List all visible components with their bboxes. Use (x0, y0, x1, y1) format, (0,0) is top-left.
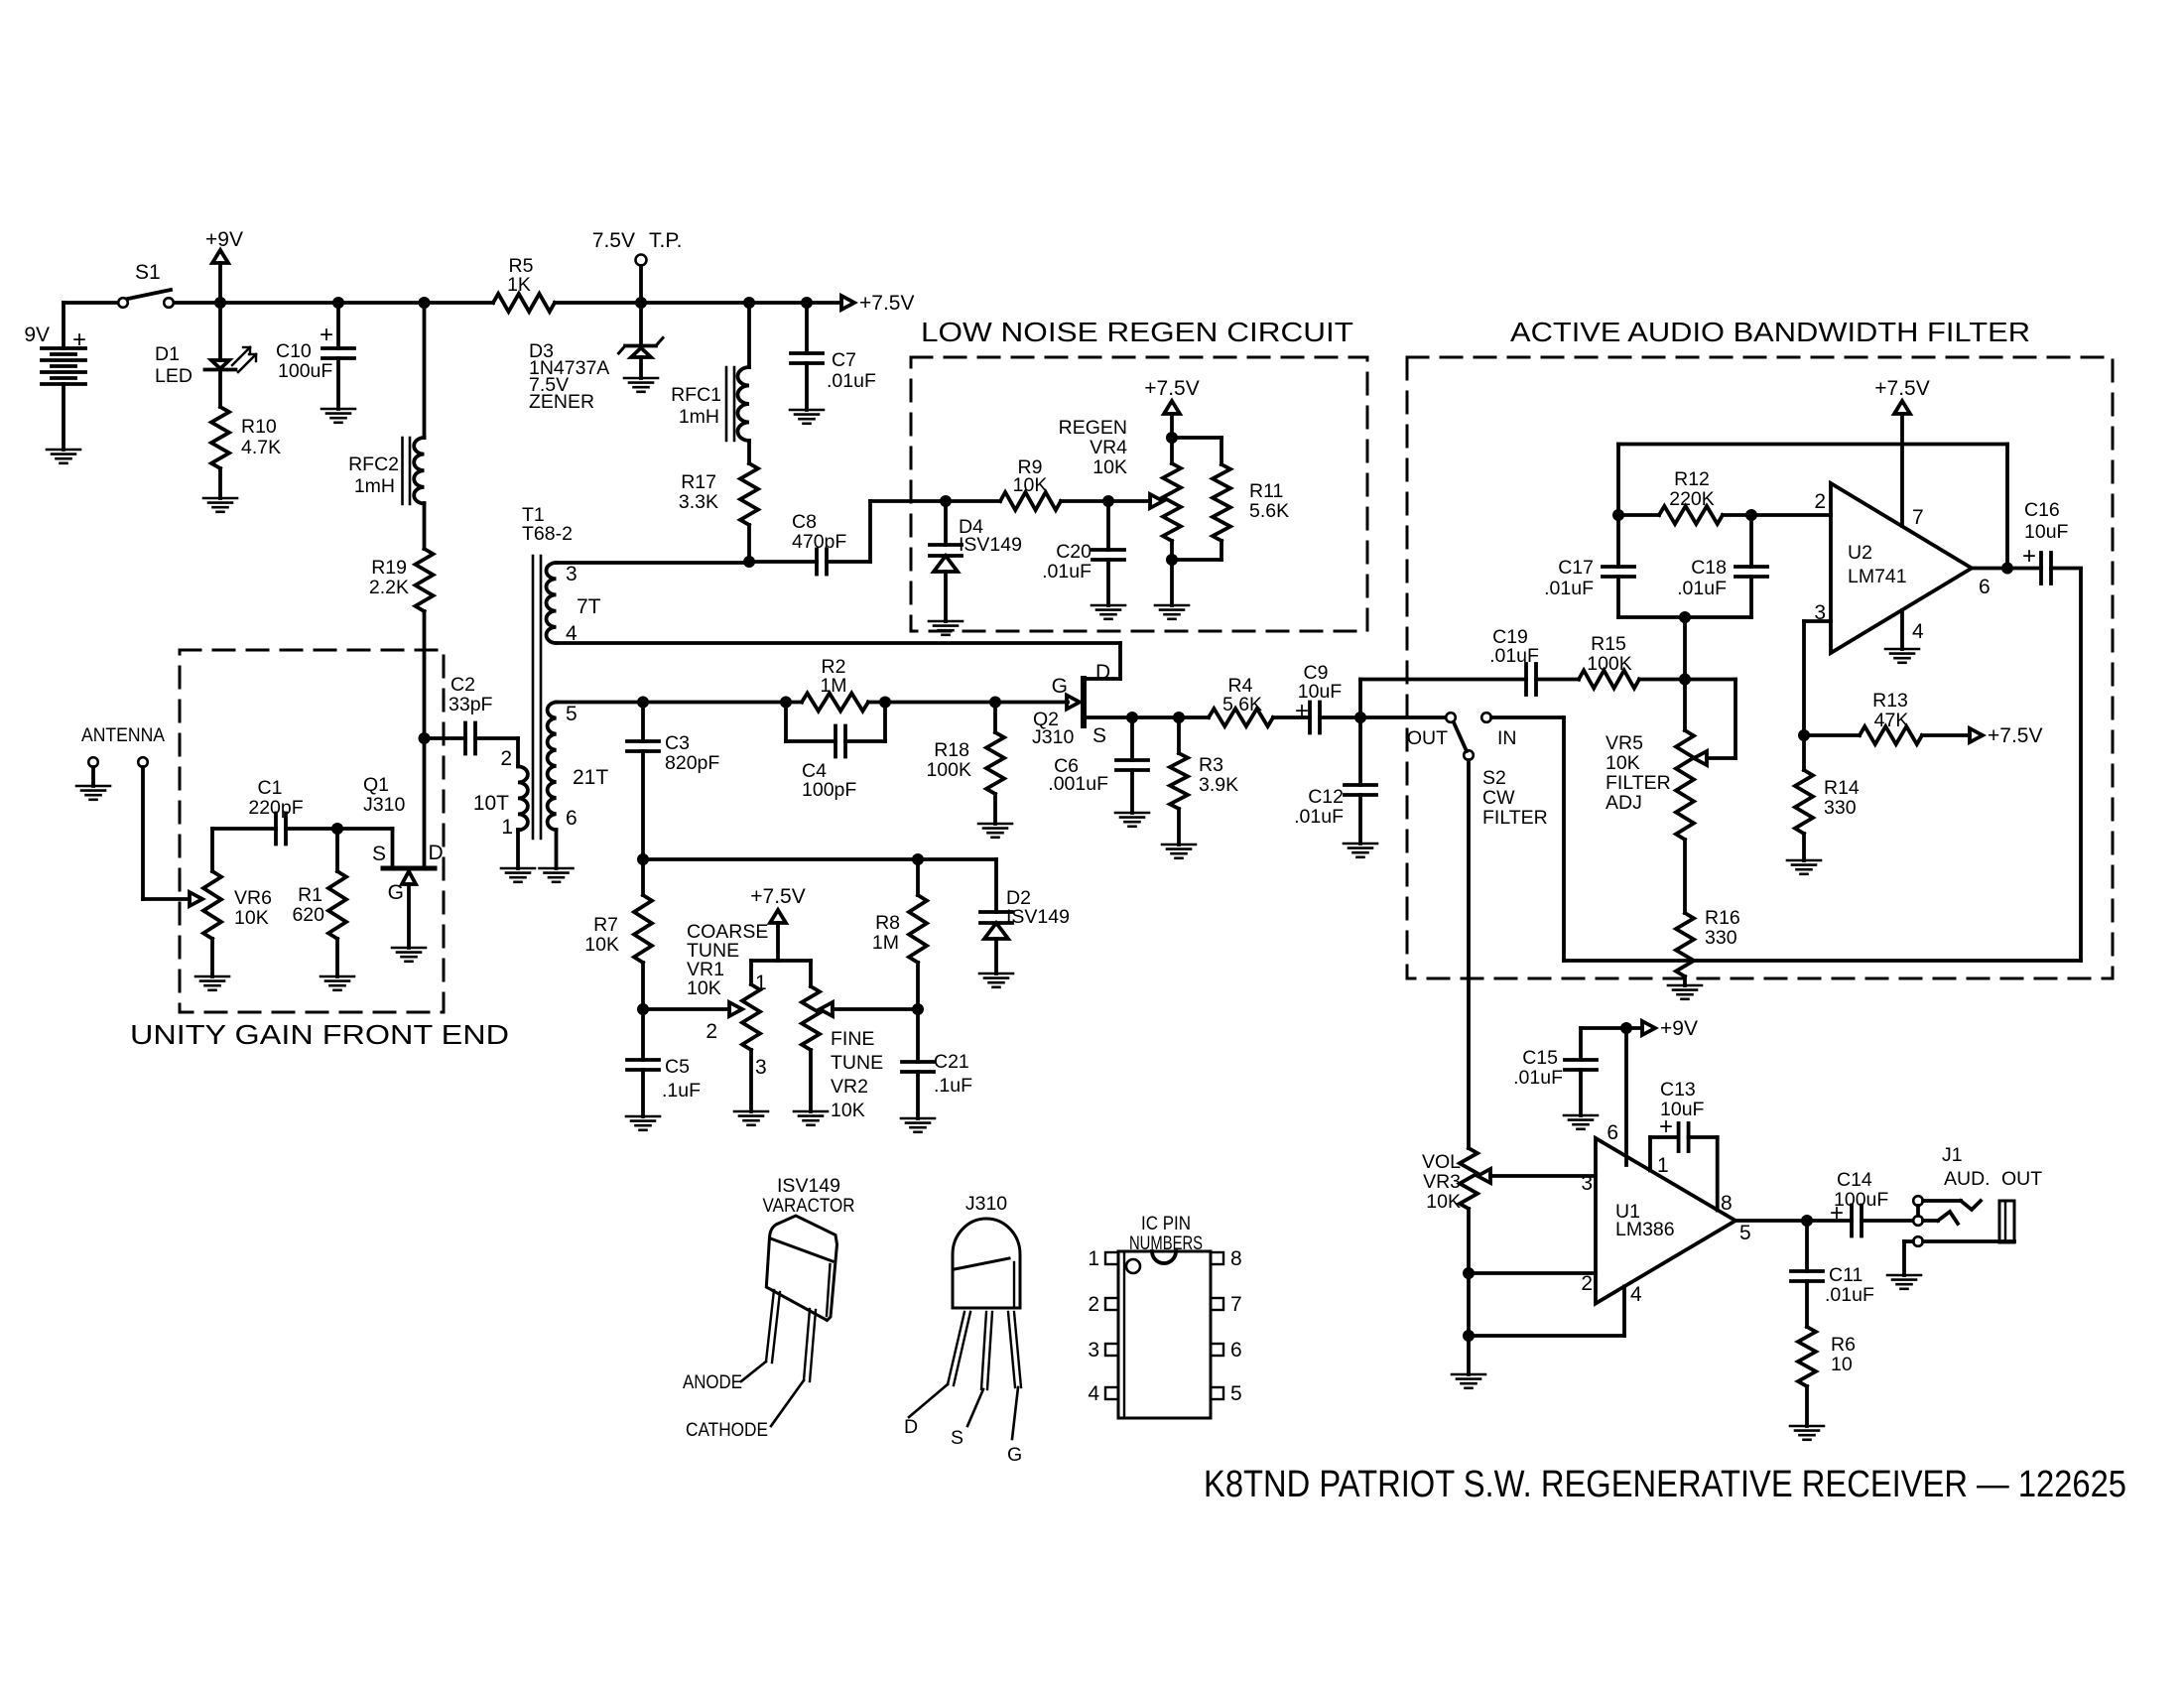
svg-text:C21: C21 (934, 1051, 969, 1073)
svg-text:R16: R16 (1705, 907, 1740, 929)
junction R8 top (912, 853, 924, 865)
svg-text:.01uF: .01uF (1544, 578, 1594, 599)
wire S2 common to VR3 (1467, 760, 1471, 1148)
svg-text:C15: C15 (1522, 1047, 1558, 1069)
svg-text:4.7K: 4.7K (241, 437, 281, 458)
capacitor C12 .01uF (1358, 717, 1362, 785)
wire pin4 to Q2 drain (557, 641, 1121, 645)
resistor R8 1M (909, 895, 927, 963)
svg-text:2: 2 (1581, 1272, 1593, 1295)
capacitor C1 220pF (212, 827, 276, 831)
power +7.5V U2 pin7 (1900, 414, 1904, 526)
svg-text:C14: C14 (1837, 1169, 1872, 1191)
svg-text:330: 330 (1705, 927, 1737, 949)
svg-text:C17: C17 (1558, 557, 1594, 579)
resistor R13 47K (1804, 733, 1860, 737)
resistor R3 3.9K (1170, 753, 1188, 809)
transformer T1 winding 21T pin5 pin6 (548, 703, 557, 831)
ground D3 (624, 377, 658, 380)
svg-text:R7: R7 (593, 914, 618, 936)
svg-text:.01uF: .01uF (1042, 561, 1092, 583)
wire R7 to VR1 wiper (643, 1007, 729, 1011)
svg-text:1: 1 (755, 972, 767, 994)
svg-text:330: 330 (1824, 797, 1857, 819)
wire Q2 source to R4 (1132, 715, 1209, 719)
jack J1 AUD OUT (1913, 1196, 1923, 1206)
capacitor C13 10uF (1648, 1137, 1652, 1171)
svg-text:Q1: Q1 (363, 774, 389, 796)
junction R3 node (1173, 712, 1185, 723)
svg-text:2: 2 (1088, 1293, 1099, 1316)
junction VR3 pin4 node (1463, 1330, 1475, 1342)
capacitor C16 10uF (2039, 553, 2043, 584)
ground T1 pin1 (501, 867, 535, 870)
svg-text:S2: S2 (1482, 767, 1506, 789)
ground R18 (978, 823, 1012, 826)
svg-text:100uF: 100uF (1834, 1189, 1888, 1211)
svg-text:S1: S1 (135, 261, 161, 284)
svg-text:+: + (2022, 543, 2036, 570)
svg-text:5: 5 (566, 703, 578, 725)
capacitor C14 100uF (1807, 1219, 1852, 1223)
svg-text:+9V: +9V (1660, 1017, 1698, 1040)
svg-text:ANTENNA: ANTENNA (81, 724, 165, 746)
capacitor C10 100uF (336, 303, 340, 348)
svg-text:220pF: 220pF (248, 797, 303, 819)
svg-text:CW: CW (1482, 787, 1515, 809)
resistor R5 1K (493, 294, 555, 312)
junction +9V audio node (1620, 1022, 1632, 1034)
wire R12 right to op amp pin2 (1751, 513, 1831, 517)
svg-text:+7.5V: +7.5V (1144, 377, 1199, 400)
svg-text:+7.5V: +7.5V (859, 292, 914, 315)
potentiometer VR3 10K volume (1460, 1148, 1477, 1209)
svg-text:7: 7 (1912, 506, 1924, 529)
svg-text:D: D (429, 842, 444, 864)
svg-text:J310: J310 (1032, 726, 1074, 748)
junction D4 node (940, 495, 952, 507)
svg-text:9V: 9V (24, 324, 50, 346)
svg-text:J310: J310 (965, 1193, 1007, 1215)
svg-text:100pF: 100pF (802, 779, 856, 801)
svg-text:LOW NOISE REGEN CIRCUIT: LOW NOISE REGEN CIRCUIT (921, 317, 1353, 347)
junction R18 top (989, 697, 1001, 709)
inductor RFC2 1mH (423, 303, 427, 438)
svg-text:7T: 7T (577, 595, 601, 618)
svg-text:21T: 21T (573, 766, 608, 789)
transformer T1 core (532, 556, 535, 839)
svg-text:470pF: 470pF (792, 531, 846, 553)
svg-text:4: 4 (1912, 620, 1924, 643)
svg-text:5.6K: 5.6K (1222, 694, 1262, 715)
junction C7 node (801, 297, 813, 309)
wire C17 C18 bottom (1618, 615, 1751, 619)
svg-text:3: 3 (1088, 1339, 1099, 1362)
resistor R4 5.6K (1209, 709, 1273, 726)
svg-text:VR5: VR5 (1606, 732, 1643, 754)
test point 7.5V T.P. (636, 255, 647, 266)
svg-text:VOL: VOL (1422, 1151, 1461, 1173)
svg-text:K8TND PATRIOT S.W. REGENERATIV: K8TND PATRIOT S.W. REGENERATIVE RECEIVER… (1204, 1464, 2126, 1505)
potentiometer VR4 10K regen (1108, 499, 1150, 503)
capacitor C5 .1uF (641, 1009, 645, 1060)
svg-text:G: G (1007, 1444, 1022, 1466)
svg-text:J1: J1 (1942, 1144, 1963, 1166)
ground Q1 gate (392, 947, 426, 950)
svg-text:47K: 47K (1874, 710, 1909, 731)
svg-text:+7.5V: +7.5V (750, 885, 805, 908)
capacitor C11 .01uF (1805, 1221, 1809, 1271)
svg-text:C16: C16 (2024, 499, 2060, 521)
svg-text:C10: C10 (276, 340, 312, 362)
zener D3 1N4737A (639, 303, 643, 346)
junction C6 node (1126, 712, 1138, 723)
wire C3 bottom rail (643, 857, 996, 861)
capacitor C15 .01uF (1581, 1026, 1626, 1030)
svg-text:VR3: VR3 (1423, 1171, 1461, 1193)
wire R2 right to Q2 gate (885, 701, 1068, 705)
svg-text:R12: R12 (1674, 468, 1710, 490)
ground C7 (790, 409, 824, 412)
svg-text:G: G (1052, 675, 1068, 698)
capacitor C18 .01uF (1749, 515, 1753, 567)
antenna terminals (88, 757, 98, 767)
ground battery (47, 449, 80, 452)
power flag +7.5V right of rail (841, 296, 854, 310)
svg-text:G: G (388, 881, 404, 904)
svg-text:R10: R10 (241, 416, 277, 438)
transistor Q2 J310 (1067, 696, 1080, 710)
svg-text:33pF: 33pF (449, 694, 493, 715)
svg-text:D: D (904, 1416, 918, 1438)
capacitor C20 .01uF (1106, 501, 1110, 550)
svg-text:10K: 10K (1606, 752, 1640, 774)
ground U2 pin4 (1900, 610, 1904, 649)
resistor R9 10K (946, 499, 1000, 503)
op-amp U2 LM741 (1831, 483, 1972, 653)
LED D1 (218, 303, 222, 360)
svg-text:R19: R19 (371, 557, 407, 579)
junction R2 right (879, 697, 891, 709)
wire antenna to VR6 wiper (141, 767, 145, 899)
svg-text:3.3K: 3.3K (679, 491, 718, 513)
transformer T1 winding 7T pin3 (547, 563, 557, 643)
junction R15 out (1679, 674, 1691, 686)
svg-text:IC PIN: IC PIN (1141, 1213, 1191, 1234)
resistor R11 5.6K (1172, 436, 1221, 440)
svg-text:C8: C8 (792, 511, 817, 533)
transistor Q1 J310 (337, 827, 393, 831)
resistor R1 620 (328, 871, 346, 939)
svg-text:RFC2: RFC2 (348, 454, 399, 475)
svg-text:6: 6 (1230, 1339, 1242, 1362)
svg-text:+7.5V: +7.5V (1988, 724, 2042, 747)
svg-text:IN: IN (1497, 727, 1517, 749)
ground C5 (626, 1115, 660, 1118)
power +7.5V tune (751, 959, 811, 963)
ground D4 (929, 620, 963, 623)
resistor R17 3.3K (747, 441, 751, 463)
ground R1 (321, 975, 354, 978)
resistor R16 330 (1676, 913, 1694, 976)
svg-text:1K: 1K (507, 274, 531, 296)
svg-text:OUT: OUT (1407, 727, 1448, 749)
ground R10 (203, 497, 237, 500)
svg-text:+7.5V: +7.5V (1874, 377, 1929, 400)
ground C10 (321, 408, 355, 411)
svg-text:10: 10 (1831, 1354, 1853, 1375)
capacitor C6 .001uF (1130, 717, 1134, 760)
svg-text:10K: 10K (584, 934, 619, 956)
svg-text:6: 6 (566, 807, 578, 830)
svg-text:ZENER: ZENER (529, 391, 594, 413)
wire feedback top (1616, 445, 1620, 516)
svg-text:.01uF: .01uF (1825, 1284, 1874, 1306)
svg-text:ADJ: ADJ (1606, 792, 1642, 814)
wire U1 pin6 (1624, 1028, 1628, 1165)
svg-text:8: 8 (1721, 1192, 1733, 1215)
svg-text:+: + (1659, 1113, 1673, 1140)
svg-text:10K: 10K (1092, 456, 1127, 478)
capacitor C2 33pF (425, 736, 466, 740)
junction C8 wire T1 pin3 (743, 556, 755, 568)
ground C21 (901, 1117, 935, 1120)
svg-text:10K: 10K (687, 977, 721, 999)
svg-text:FILTER: FILTER (1606, 772, 1671, 794)
svg-text:C12: C12 (1308, 786, 1344, 808)
svg-text:R11: R11 (1249, 480, 1283, 502)
svg-text:LED: LED (155, 365, 193, 387)
svg-text:VARACTOR: VARACTOR (763, 1195, 855, 1217)
dashed box unity gain front end (180, 650, 444, 1012)
svg-text:ISV149: ISV149 (1006, 906, 1070, 928)
svg-text:10uF: 10uF (2024, 521, 2069, 543)
switch S2 CW FILTER (1446, 713, 1456, 722)
junction VR4 top (1166, 432, 1178, 444)
svg-text:4: 4 (1088, 1382, 1099, 1405)
svg-text:C20: C20 (1056, 541, 1092, 563)
svg-text:TUNE: TUNE (831, 1052, 883, 1074)
ground C20 (1092, 604, 1125, 607)
resistor R10 4.7K (211, 407, 229, 468)
svg-text:D: D (1095, 661, 1110, 684)
svg-text:R8: R8 (875, 912, 900, 934)
ground D2 (979, 973, 1013, 975)
svg-text:3.9K: 3.9K (1199, 774, 1238, 796)
svg-text:.01uF: .01uF (1677, 578, 1727, 599)
inductor RFC1 1mH (747, 303, 751, 367)
junction R12 left (1612, 509, 1624, 521)
resistor R2 1M (802, 694, 868, 712)
junction TP node (635, 297, 647, 309)
svg-text:R15: R15 (1591, 633, 1626, 655)
varactor D4 ISV149 (944, 501, 948, 545)
junction VR3 bottom pin2 (1463, 1267, 1475, 1279)
svg-text:R1: R1 (298, 884, 322, 906)
ground C15 (1564, 1114, 1598, 1117)
power flag +9V (1626, 1026, 1642, 1030)
junction C10 node (332, 297, 344, 309)
junction +9V node (214, 297, 226, 309)
svg-text:RFC1: RFC1 (671, 384, 721, 406)
svg-text:VR6: VR6 (234, 887, 272, 909)
ground C6 (1115, 812, 1149, 815)
junction R2 left (780, 697, 792, 709)
svg-text:R14: R14 (1824, 777, 1860, 799)
potentiometer VR1 10K coarse tune (729, 1002, 742, 1016)
junction C17 C18 bottom (1679, 611, 1691, 623)
junction R12 right (1745, 509, 1757, 521)
svg-text:T.P.: T.P. (649, 229, 682, 252)
svg-text:S: S (951, 1427, 964, 1449)
svg-text:5.6K: 5.6K (1249, 500, 1289, 522)
ground VR4 (1155, 604, 1189, 607)
ground VR3 (1452, 1373, 1485, 1376)
svg-text:R3: R3 (1199, 754, 1223, 776)
junction C2 node (419, 732, 431, 744)
svg-text:.01uF: .01uF (827, 370, 876, 392)
svg-text:620: 620 (292, 904, 324, 926)
svg-text:8: 8 (1230, 1247, 1242, 1270)
svg-text:5: 5 (1739, 1222, 1751, 1244)
svg-text:D1: D1 (155, 343, 180, 365)
junction U1 out node (1801, 1215, 1813, 1227)
svg-text:10K: 10K (234, 907, 269, 929)
junction RFC1 node (743, 297, 755, 309)
op-amp U1 LM386 (1596, 1138, 1735, 1304)
potentiometer VR5 10K filter adj (1676, 730, 1694, 840)
svg-text:1mH: 1mH (354, 475, 395, 497)
capacitor C21 .1uF (916, 1009, 920, 1062)
svg-text:2.2K: 2.2K (369, 577, 409, 598)
varactor D2 ISV149 (994, 859, 998, 912)
svg-text:10T: 10T (473, 792, 509, 815)
svg-text:UNITY GAIN FRONT END: UNITY GAIN FRONT END (130, 1019, 509, 1050)
ground T1 pin6 (540, 867, 574, 870)
ground C12 (1344, 843, 1377, 845)
wire U1 output (1735, 1219, 1807, 1223)
junction C3 bottom (637, 853, 649, 865)
capacitor C3 820pF (641, 703, 645, 742)
resistor R15 100K (1579, 671, 1639, 689)
svg-text:CATHODE: CATHODE (686, 1419, 768, 1441)
resistor R19 2.2K (423, 503, 427, 549)
svg-text:LM741: LM741 (1848, 566, 1907, 587)
svg-text:AUD.: AUD. (1944, 1168, 1991, 1190)
svg-text:C2: C2 (450, 674, 475, 696)
svg-text:VR2: VR2 (831, 1076, 868, 1098)
svg-text:C3: C3 (665, 732, 690, 754)
svg-text:+: + (72, 326, 86, 353)
junction C9 out node (1354, 712, 1366, 723)
svg-text:5: 5 (1230, 1382, 1242, 1405)
svg-text:100uF: 100uF (278, 360, 332, 382)
svg-text:J310: J310 (363, 794, 405, 816)
svg-text:S: S (372, 843, 386, 865)
svg-text:1M: 1M (820, 675, 846, 697)
svg-text:.01uF: .01uF (1513, 1067, 1563, 1089)
potentiometer VR6 10K (190, 892, 202, 906)
svg-text:C5: C5 (665, 1056, 690, 1078)
junction U2 output (2001, 563, 2013, 575)
svg-text:U2: U2 (1848, 542, 1872, 564)
junction R8 bottom VR2 wiper (912, 1003, 924, 1015)
svg-text:6: 6 (1979, 576, 1991, 598)
resistor R14 330 (1795, 770, 1813, 834)
svg-text:100K: 100K (926, 759, 971, 781)
svg-text:.1uF: .1uF (934, 1075, 972, 1097)
svg-text:C13: C13 (1660, 1079, 1696, 1101)
power +7.5V regen (1164, 401, 1180, 414)
transformer T1 winding 10T pin1 pin2 (518, 766, 528, 830)
svg-text:1mH: 1mH (679, 406, 719, 428)
svg-text:1: 1 (1088, 1247, 1099, 1270)
junction C1-R1 node (331, 823, 343, 835)
wire main +9V/+7.5V rail (64, 301, 118, 305)
svg-text:C11: C11 (1829, 1264, 1863, 1286)
svg-text:C18: C18 (1691, 557, 1727, 579)
svg-text:3: 3 (566, 563, 578, 585)
ground VR6 (195, 975, 229, 978)
junction C3 top (637, 697, 649, 709)
svg-text:1M: 1M (872, 932, 899, 954)
capacitor C8 470pF (749, 560, 817, 564)
ground J1 (1887, 1274, 1921, 1277)
svg-text:.01uF: .01uF (1489, 645, 1539, 667)
svg-text:7: 7 (1230, 1293, 1242, 1316)
switch S1 (118, 298, 128, 308)
ground R16 (1668, 984, 1702, 987)
svg-text:R18: R18 (934, 739, 969, 761)
wire U2 pin3 (1804, 619, 1831, 623)
svg-text:ISV149: ISV149 (777, 1175, 840, 1197)
svg-text:2: 2 (706, 1020, 717, 1043)
svg-text:FINE: FINE (831, 1028, 874, 1050)
svg-text:VR4: VR4 (1090, 437, 1127, 458)
svg-text:7.5V: 7.5V (592, 229, 635, 252)
svg-text:OUT: OUT (2001, 1168, 2042, 1190)
svg-text:1: 1 (501, 816, 513, 839)
wire pin5 node to R2 (643, 701, 786, 705)
svg-text:C1: C1 (258, 777, 283, 799)
svg-text:+9V: +9V (205, 228, 243, 251)
battery 9V (62, 303, 65, 348)
svg-text:R6: R6 (1831, 1334, 1856, 1356)
svg-text:1: 1 (1657, 1154, 1669, 1177)
svg-text:6: 6 (1606, 1121, 1618, 1144)
svg-text:.01uF: .01uF (1294, 806, 1344, 828)
svg-text:ISV149: ISV149 (959, 534, 1022, 556)
svg-text:S: S (1092, 724, 1106, 747)
capacitor C19 .01uF (1360, 678, 1526, 682)
capacitor C9 10uF (1308, 703, 1312, 733)
dashed box active audio bandwidth filter (1407, 357, 2113, 978)
svg-text:4: 4 (1630, 1283, 1642, 1306)
svg-text:100K: 100K (1587, 653, 1632, 675)
ground VR1 (734, 1110, 768, 1113)
svg-text:R13: R13 (1872, 690, 1908, 712)
svg-text:10K: 10K (831, 1100, 865, 1121)
svg-text:ACTIVE AUDIO BANDWIDTH FILTER: ACTIVE AUDIO BANDWIDTH FILTER (1510, 317, 2030, 347)
potentiometer VR2 10K fine tune (802, 986, 820, 1050)
svg-text:2: 2 (1814, 490, 1826, 513)
svg-text:220K: 220K (1669, 488, 1715, 510)
junction R7 bottom (637, 1003, 649, 1015)
svg-text:3: 3 (755, 1056, 767, 1079)
wire filter node vertical (1683, 617, 1687, 680)
resistor R6 10 (1798, 1327, 1816, 1386)
svg-text:T68-2: T68-2 (522, 523, 573, 545)
